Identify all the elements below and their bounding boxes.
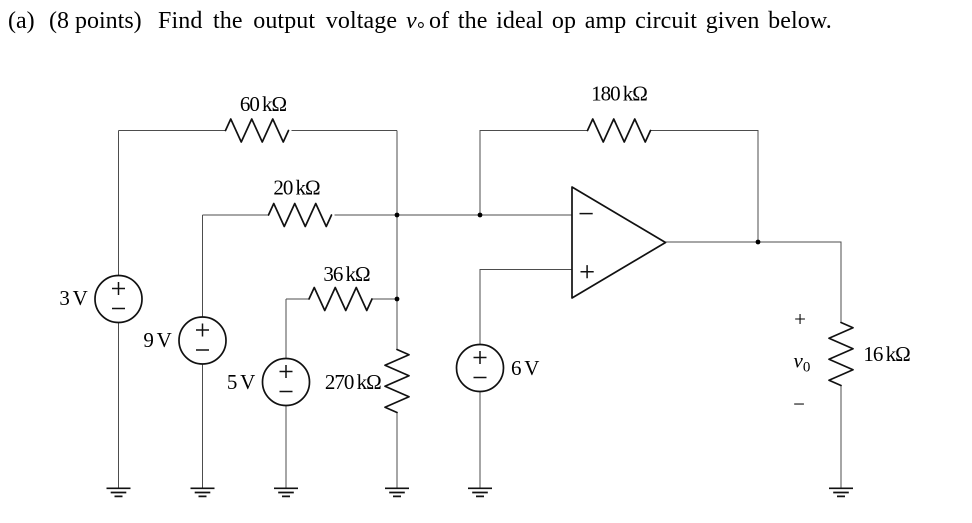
- resistor 270k (vertical): [385, 350, 409, 413]
- svg-text:−: −: [793, 392, 805, 416]
- voltage source 9V: [179, 317, 226, 364]
- op-amp U1: [572, 187, 666, 298]
- svg-text:Find the output voltage: Find the output voltage: [158, 8, 397, 34]
- ground (3V branch): [107, 488, 131, 496]
- svg-text:180 kΩ: 180 kΩ: [591, 82, 647, 106]
- wire non-inverting input row and 6V column: [480, 270, 572, 488]
- svg-text:6 V: 6 V: [511, 356, 539, 380]
- wire 9V source column: [202, 215, 204, 488]
- voltage source 6V: [457, 345, 504, 392]
- ground (270k branch): [385, 488, 409, 496]
- svg-text:(a): (a): [8, 8, 35, 34]
- resistor 20k: [269, 204, 332, 227]
- wire output row to 16k column: [666, 242, 842, 488]
- svg-text:+: +: [794, 307, 806, 331]
- ground (16k branch): [829, 488, 853, 496]
- wire top-left row (3V to 60k to node column): [119, 130, 398, 132]
- wire 5V source column: [285, 299, 287, 488]
- svg-text:270 kΩ: 270 kΩ: [325, 370, 381, 394]
- wire node column upper (60k down to node A): [396, 131, 398, 216]
- resistor 60k: [226, 119, 289, 142]
- svg-text:60 kΩ: 60 kΩ: [240, 92, 287, 116]
- wire feedback loop (node C up, over 180k, down to output node): [480, 131, 758, 243]
- svg-text:16 kΩ: 16 kΩ: [863, 342, 910, 366]
- resistor 36k: [309, 288, 372, 311]
- voltage source 3V: [95, 276, 142, 323]
- svg-text:3 V: 3 V: [59, 286, 87, 310]
- svg-text:v: v: [406, 8, 417, 34]
- svg-text:of the ideal op amp circuit gi: of the ideal op amp circuit given below.: [429, 8, 832, 34]
- resistor 16k (vertical): [829, 323, 853, 386]
- node A (20k/60k/270k junction): [395, 213, 400, 218]
- voltage source 5V: [263, 359, 310, 406]
- svg-text:20 kΩ: 20 kΩ: [273, 176, 320, 200]
- node D (output / feedback junction): [756, 240, 761, 245]
- svg-text:5 V: 5 V: [227, 370, 255, 394]
- wire 3V source column: [118, 131, 120, 488]
- svg-text:36 kΩ: 36 kΩ: [323, 262, 370, 286]
- title text line: [8, 8, 832, 34]
- ground (6V branch): [468, 488, 492, 496]
- resistor 180k: [588, 119, 651, 142]
- svg-text:9 V: 9 V: [143, 328, 171, 352]
- wire 20k row to op-amp inverting input: [203, 214, 573, 216]
- svg-text:(8 points): (8 points): [49, 8, 142, 34]
- wire 36k row: [286, 298, 397, 300]
- wire 270k column (node A down through node B to ground): [396, 215, 398, 488]
- node C (inverting input / feedback junction): [478, 213, 483, 218]
- ground (9V branch): [191, 488, 215, 496]
- ground (5V branch): [274, 488, 298, 496]
- node B (36k/270k junction): [395, 297, 400, 302]
